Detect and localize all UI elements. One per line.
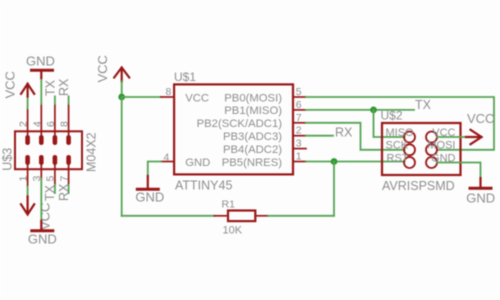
VCC rail down left side xyxy=(121,97,123,216)
U$2 pad VCC xyxy=(426,132,437,143)
svg-text:SCK: SCK xyxy=(386,140,409,152)
VCC symbol left of U$1 xyxy=(114,68,129,82)
wire pin2 to VCC (top) xyxy=(27,97,29,109)
resistor R1 body xyxy=(228,211,255,222)
svg-text:2: 2 xyxy=(18,121,30,127)
resistor R1 left lead xyxy=(214,215,228,217)
svg-text:PB0(MOSI): PB0(MOSI) xyxy=(224,92,282,104)
wire pin8 RX (top) xyxy=(68,96,70,104)
svg-text:4: 4 xyxy=(31,121,43,127)
U$2 pad MISO xyxy=(404,132,415,143)
U$2 pad GND xyxy=(426,157,437,168)
connector U$2 box xyxy=(382,123,461,175)
wire VCC down to junction xyxy=(121,82,123,98)
svg-text:PB5(NRES): PB5(NRES) xyxy=(222,157,283,169)
svg-text:PB1(MISO): PB1(MISO) xyxy=(224,105,282,117)
svg-text:VCC: VCC xyxy=(38,203,53,230)
svg-text:AVRISPSMD: AVRISPSMD xyxy=(382,179,455,193)
svg-text:GND: GND xyxy=(28,232,57,247)
wire R1 to RST vertical xyxy=(268,215,334,217)
svg-text:2: 2 xyxy=(296,125,302,137)
svg-text:7: 7 xyxy=(58,176,70,182)
VCC symbol top of U$3 xyxy=(21,84,34,97)
wire pin5 TX (bottom) xyxy=(54,185,56,193)
wire pin2 RX net xyxy=(306,135,333,137)
GND symbol below U$1 xyxy=(137,176,158,189)
U$1 right pin stubs xyxy=(293,97,306,162)
svg-text:1: 1 xyxy=(296,151,302,163)
svg-text:ATTINY45: ATTINY45 xyxy=(175,178,232,192)
wire RST junction down to R1 xyxy=(333,162,335,216)
wire U$2 VCC to arrow xyxy=(437,136,467,138)
wire pin4 to GND (top) xyxy=(40,78,42,104)
GND symbol below U$2 xyxy=(470,178,491,188)
junction RST net xyxy=(331,158,338,165)
U$2 pad MOSI xyxy=(426,144,437,155)
wire pin5 PB0(MOSI) net xyxy=(306,97,494,150)
wire U$2 GND down xyxy=(437,163,481,179)
U$3 bottom pin numbers 1 3 5 7 xyxy=(17,176,70,182)
wire pin6 PB1(MISO)/TX net xyxy=(306,109,414,111)
svg-text:8: 8 xyxy=(59,121,71,127)
svg-text:10K: 10K xyxy=(223,225,243,237)
svg-text:U$1: U$1 xyxy=(174,70,196,84)
svg-text:U$2: U$2 xyxy=(381,109,403,123)
svg-text:3: 3 xyxy=(296,138,302,150)
U$1 left pin stubs xyxy=(161,97,174,162)
wire pin6 TX (top) xyxy=(54,96,56,104)
wire TX junction down to MISO xyxy=(374,110,405,137)
svg-text:1: 1 xyxy=(17,176,29,182)
svg-text:PB3(ADC3): PB3(ADC3) xyxy=(223,131,282,143)
U$2 pad RST xyxy=(404,157,415,168)
svg-text:M04X2: M04X2 xyxy=(85,132,99,172)
wire pin4 to GND xyxy=(148,162,161,177)
svg-text:RX: RX xyxy=(57,183,71,201)
connector U$3 box xyxy=(15,131,82,169)
svg-text:6: 6 xyxy=(45,121,57,127)
wire pin7 RX (bottom) xyxy=(68,185,70,193)
IC U$1 box xyxy=(174,84,293,174)
svg-text:U$3: U$3 xyxy=(1,148,15,171)
svg-text:7: 7 xyxy=(296,112,302,124)
svg-text:5: 5 xyxy=(45,176,57,182)
svg-text:RX: RX xyxy=(335,126,353,140)
svg-text:RX: RX xyxy=(57,78,71,96)
svg-text:VCC: VCC xyxy=(3,71,18,98)
GND symbol below U$3 xyxy=(32,221,53,231)
junction TX net xyxy=(370,107,377,114)
wire pin1 PB5(NRES)/RST net xyxy=(306,161,405,163)
svg-text:R1: R1 xyxy=(222,199,236,211)
resistor R1 right lead xyxy=(255,215,268,217)
wire pin1 to VCC (bottom) xyxy=(27,187,29,198)
VCC symbol right (pointing right) xyxy=(466,130,482,144)
svg-text:6: 6 xyxy=(296,99,302,111)
wire VCC rail to R1 xyxy=(122,215,215,217)
U$1 pin numbers xyxy=(163,86,301,164)
svg-text:GND: GND xyxy=(185,157,210,169)
wire pin3 to GND (bottom) xyxy=(40,179,42,222)
svg-text:GND: GND xyxy=(135,189,164,204)
svg-text:4: 4 xyxy=(163,152,169,164)
svg-text:RST: RST xyxy=(387,152,409,164)
svg-text:PB4(ADC2): PB4(ADC2) xyxy=(223,144,282,156)
wire junction to pin 8 xyxy=(122,96,161,98)
svg-text:PB2(SCK/ADC1): PB2(SCK/ADC1) xyxy=(197,118,283,130)
svg-text:VCC: VCC xyxy=(467,111,494,126)
svg-text:VCC: VCC xyxy=(95,55,110,82)
svg-text:MISO: MISO xyxy=(386,127,415,139)
wire pin7 PB2(SCK) net xyxy=(306,123,405,150)
svg-text:8: 8 xyxy=(165,86,171,98)
svg-text:TX: TX xyxy=(43,184,57,201)
svg-text:MOSI: MOSI xyxy=(427,140,455,152)
svg-text:5: 5 xyxy=(296,86,302,98)
GND symbol above U$3 xyxy=(32,70,53,78)
junction VCC rail xyxy=(118,94,125,101)
U$3 pads xyxy=(25,135,71,165)
VCC symbol below U$3 (pointing down) xyxy=(21,197,34,215)
U$2 pad SCK xyxy=(404,144,415,155)
svg-text:VCC: VCC xyxy=(185,92,209,104)
svg-text:GND: GND xyxy=(26,53,55,68)
svg-text:GND: GND xyxy=(466,191,495,206)
svg-text:TX: TX xyxy=(44,79,58,96)
U$3 pin stubs xyxy=(28,104,69,187)
svg-text:TX: TX xyxy=(415,98,432,112)
U$3 top pin numbers 2 4 6 8 xyxy=(18,121,71,127)
